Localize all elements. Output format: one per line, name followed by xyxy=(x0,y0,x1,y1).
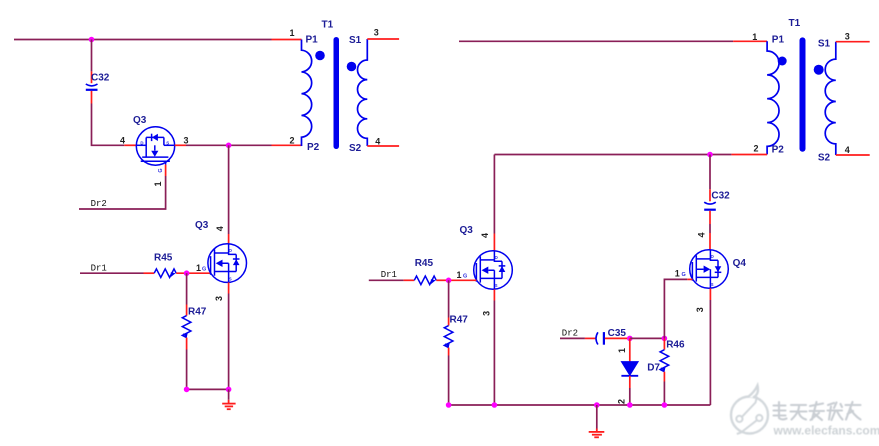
wire top-left horizontal net xyxy=(14,39,272,41)
svg-text:S: S xyxy=(229,276,232,281)
svg-text:2: 2 xyxy=(753,144,758,154)
svg-text:4: 4 xyxy=(120,136,125,146)
svg-text:D: D xyxy=(495,255,498,260)
pin 2 stub of right T1 (red) xyxy=(731,154,767,156)
wire R47 bottom to ground rail (right) xyxy=(448,356,450,406)
svg-text:P2: P2 xyxy=(772,145,785,156)
resistor R47 xyxy=(182,316,191,338)
svg-text:Q3: Q3 xyxy=(460,225,474,236)
wire R47 bottom to rail xyxy=(186,350,188,390)
svg-text:R46: R46 xyxy=(666,340,685,351)
pin 4 stub of Q3 (red) xyxy=(124,144,136,146)
svg-text:1: 1 xyxy=(153,181,163,186)
wire C32 to Q4 drain xyxy=(709,224,711,233)
svg-text:3: 3 xyxy=(374,28,379,38)
svg-text:2: 2 xyxy=(289,136,294,146)
pin stub R45 left (red) xyxy=(144,272,155,274)
pin stub R46 bottom (red) xyxy=(663,372,665,382)
diode D7 pin 1 (red) xyxy=(629,338,631,361)
svg-text:S2: S2 xyxy=(818,153,831,164)
svg-text:D7: D7 xyxy=(647,363,660,374)
transistor Q3 (upper MOSFET, gate at bottom) xyxy=(136,127,174,165)
gate pin stub of right Q3 (red) xyxy=(449,279,477,281)
resistor R47 (right) xyxy=(444,326,453,348)
svg-text:1: 1 xyxy=(289,28,294,38)
pin 4 stub of right Q3 (red) xyxy=(493,234,495,251)
svg-text:Dr1: Dr1 xyxy=(91,264,107,274)
svg-text:Q4: Q4 xyxy=(733,258,747,269)
pin stub C35 right (red) xyxy=(605,337,630,339)
svg-text:C32: C32 xyxy=(711,191,730,202)
node junction Dr2/R46/Q4 gate xyxy=(662,336,668,342)
pin 3 stub of right T1 (red) xyxy=(836,41,870,43)
wire D7 to rail xyxy=(629,388,631,405)
capacitor C1 pin 1 (red stub above C32) xyxy=(91,71,93,83)
capacitor C32 pin 2 (red stub below) xyxy=(91,91,93,104)
node junction rail at D7 xyxy=(627,402,633,408)
polarity dot secondary xyxy=(347,62,357,72)
wire right Q3 source down to rail xyxy=(493,301,495,406)
wire R47 top (from junction) xyxy=(186,273,188,304)
svg-text:1: 1 xyxy=(457,270,462,280)
pin 4 stub of Q4 (red) xyxy=(709,233,711,250)
resistor R45 end arrow mark (right) xyxy=(431,279,436,284)
svg-text:Q3: Q3 xyxy=(195,220,209,231)
svg-text:S: S xyxy=(495,283,498,288)
wire bottom ground rail (right circuit) xyxy=(449,404,711,406)
transformer T1 primary winding (left) xyxy=(302,40,312,147)
node junction on P2 rail above C32 xyxy=(707,152,713,158)
wire junction to R46 junction xyxy=(630,337,665,339)
resistor R45 end arrow mark xyxy=(171,272,176,277)
watermark chinese characters xyxy=(774,402,861,420)
pin 3 stub of right Q3 source (red) xyxy=(493,289,495,300)
svg-text:3: 3 xyxy=(695,307,705,312)
resistor R45 (right) xyxy=(414,276,436,285)
svg-text:4: 4 xyxy=(480,233,490,238)
pin 1 stub of T1 already drawn red above xyxy=(272,39,302,41)
svg-text:P1: P1 xyxy=(306,35,319,46)
resistor R47 end arrow mark (right) xyxy=(445,344,450,349)
svg-text:Dr1: Dr1 xyxy=(381,270,397,280)
ground (left circuit) xyxy=(222,400,235,409)
capacitor C32 (right circuit) xyxy=(704,202,716,210)
wire R46 to rail xyxy=(663,382,665,406)
node junction R45/R47/gate (right) xyxy=(446,278,452,284)
transistor Q3 (lower left, gate at left) xyxy=(208,244,247,283)
wire lower Q3 source to ground rail xyxy=(228,294,230,390)
watermark logo circle xyxy=(731,386,768,435)
svg-text:R47: R47 xyxy=(450,314,469,325)
svg-text:3: 3 xyxy=(214,296,224,301)
node junction C35/D7 xyxy=(627,336,633,342)
wire junction down to lower Q3 drain xyxy=(228,145,230,234)
svg-text:4: 4 xyxy=(697,232,707,237)
transformer core bar (right) xyxy=(800,37,806,151)
svg-text:P1: P1 xyxy=(772,35,785,46)
node junction rail right end xyxy=(226,387,232,393)
node junction rail at R46 xyxy=(662,402,668,408)
wire Dr1 to R45 (right) xyxy=(369,279,404,281)
svg-text:1: 1 xyxy=(675,269,680,279)
wire Dr2 to C35 xyxy=(560,337,585,339)
transistor Q4 (gate at left, mirrored internals) xyxy=(690,250,729,289)
wire corner down to right Q3 drain xyxy=(493,155,495,234)
svg-text:Dr2: Dr2 xyxy=(91,199,107,209)
node junction rail at R47 xyxy=(446,402,452,408)
gate pin 1 stub of upper Q3 (red) xyxy=(165,165,167,176)
svg-text:G: G xyxy=(202,267,206,273)
node junction rail at Q3 source xyxy=(492,402,498,408)
svg-text:www.elecfans.com: www.elecfans.com xyxy=(773,424,879,438)
transformer T1 secondary winding (left) xyxy=(357,39,367,146)
resistor R46 end arrow mark xyxy=(661,368,666,373)
pin 3 stub lower Q3 source (red) xyxy=(228,282,230,293)
capacitor C35 xyxy=(596,332,604,345)
svg-text:G: G xyxy=(463,274,467,280)
svg-text:1: 1 xyxy=(752,32,757,42)
pin stub C35 left (red) xyxy=(585,337,596,339)
svg-text:P2: P2 xyxy=(307,142,320,153)
svg-text:4: 4 xyxy=(375,137,380,147)
svg-text:S: S xyxy=(711,282,714,287)
polarity dot right secondary xyxy=(814,65,824,75)
svg-text:3: 3 xyxy=(481,311,491,316)
wire P2 rail to left corner xyxy=(494,154,731,156)
node junction rail left end xyxy=(184,387,190,393)
pin 4 stub of T1 (red) xyxy=(367,145,399,147)
wire C32 branch from P2 junction (right) xyxy=(709,155,711,190)
svg-text:D: D xyxy=(229,248,232,253)
wire ground stem (right) xyxy=(596,405,598,429)
svg-text:S: S xyxy=(166,141,169,146)
pin stub R47 top (red, right) xyxy=(448,318,450,326)
pin stub R47 bottom (red) xyxy=(186,338,188,350)
svg-text:S2: S2 xyxy=(349,143,362,154)
wire top horizontal net (right circuit) xyxy=(459,40,733,42)
pin stub R46 top (red) xyxy=(663,338,665,349)
wire ground stem xyxy=(228,389,230,399)
pin stub R47 top (red) xyxy=(186,305,188,316)
svg-text:R45: R45 xyxy=(154,252,173,263)
pin stub R45 right to junction (red) xyxy=(436,279,448,281)
svg-text:T1: T1 xyxy=(322,20,334,31)
transformer core bar (left) xyxy=(334,37,340,149)
svg-text:C35: C35 xyxy=(608,328,627,339)
node junction on Q3 pin3 net xyxy=(226,143,232,149)
svg-text:D: D xyxy=(711,254,714,259)
pin 1 stub of right T1 (red) xyxy=(733,40,767,42)
svg-text:3: 3 xyxy=(183,136,188,146)
capacitor C32 (left circuit) xyxy=(86,84,98,90)
pin 3 stub of T1 (red) xyxy=(367,38,399,40)
node junction rail at ground xyxy=(594,402,600,408)
svg-text:G: G xyxy=(158,168,164,172)
svg-text:S1: S1 xyxy=(349,35,362,46)
wire bottom rail left circuit xyxy=(187,388,229,390)
wire gate of upper Q3 down and left to Dr2 xyxy=(79,176,166,209)
wire C32 to Q3 row xyxy=(92,104,125,146)
svg-text:1: 1 xyxy=(617,348,627,353)
wire C32 branch upper segment xyxy=(91,40,93,72)
pin stub R45 right / gate stub (red) xyxy=(176,272,210,274)
resistor R47 end arrow mark xyxy=(183,334,188,339)
svg-text:1: 1 xyxy=(196,263,201,273)
pin stub R45 left (red, right circuit) xyxy=(404,279,415,281)
pin stub C32 top (red, right) xyxy=(709,189,711,201)
svg-text:G: G xyxy=(682,272,686,278)
node junction R45/R47/gate xyxy=(184,270,190,276)
pin 4 stub of right T1 (red) xyxy=(836,154,870,156)
svg-text:2: 2 xyxy=(617,399,627,404)
pin 2 stub of T1 (red) xyxy=(272,144,302,146)
wire junction down to R47 (right) xyxy=(448,280,450,317)
resistor R45 xyxy=(154,269,176,278)
svg-text:R45: R45 xyxy=(415,258,434,269)
svg-text:3: 3 xyxy=(845,32,850,42)
polarity dot primary xyxy=(315,51,325,61)
wire Q4 gate to R46 junction xyxy=(664,279,687,338)
svg-text:T1: T1 xyxy=(789,18,801,29)
svg-text:4: 4 xyxy=(215,226,225,231)
svg-text:Q3: Q3 xyxy=(133,115,147,126)
pin 3 stub of Q4 source (red) xyxy=(709,288,711,300)
gate pin stub of Q4 (red) xyxy=(687,278,692,280)
ground (right circuit) xyxy=(589,429,605,438)
svg-text:S1: S1 xyxy=(818,39,831,50)
transformer T1 secondary winding (right) xyxy=(825,42,836,155)
svg-text:D: D xyxy=(140,141,143,146)
pin 4 stub of lower Q3 (red) xyxy=(228,234,230,244)
wire Dr1 to R45 xyxy=(80,272,144,274)
diode D7 xyxy=(621,362,638,376)
diode D7 pin 2 (red) xyxy=(629,376,631,388)
transistor Q3 (right, gate at left) xyxy=(474,251,513,290)
svg-text:R47: R47 xyxy=(188,306,207,317)
wire Q3 pin3 to transformer pin2 xyxy=(186,144,272,146)
svg-text:4: 4 xyxy=(845,145,850,155)
node junction at top of C32 branch xyxy=(89,37,95,43)
svg-text:Dr2: Dr2 xyxy=(562,329,578,339)
transformer T1 primary winding (right) xyxy=(767,41,779,154)
pin 3 stub of Q3 (red) xyxy=(175,144,186,146)
wire Q4 source to rail end xyxy=(709,300,711,405)
resistor R46 xyxy=(660,350,669,372)
pin stub C32 bottom (red, right) xyxy=(709,211,711,224)
svg-text:C32: C32 xyxy=(91,73,110,84)
pin stub R47 bottom (red, right) xyxy=(448,348,450,356)
polarity dot right primary xyxy=(778,57,787,66)
